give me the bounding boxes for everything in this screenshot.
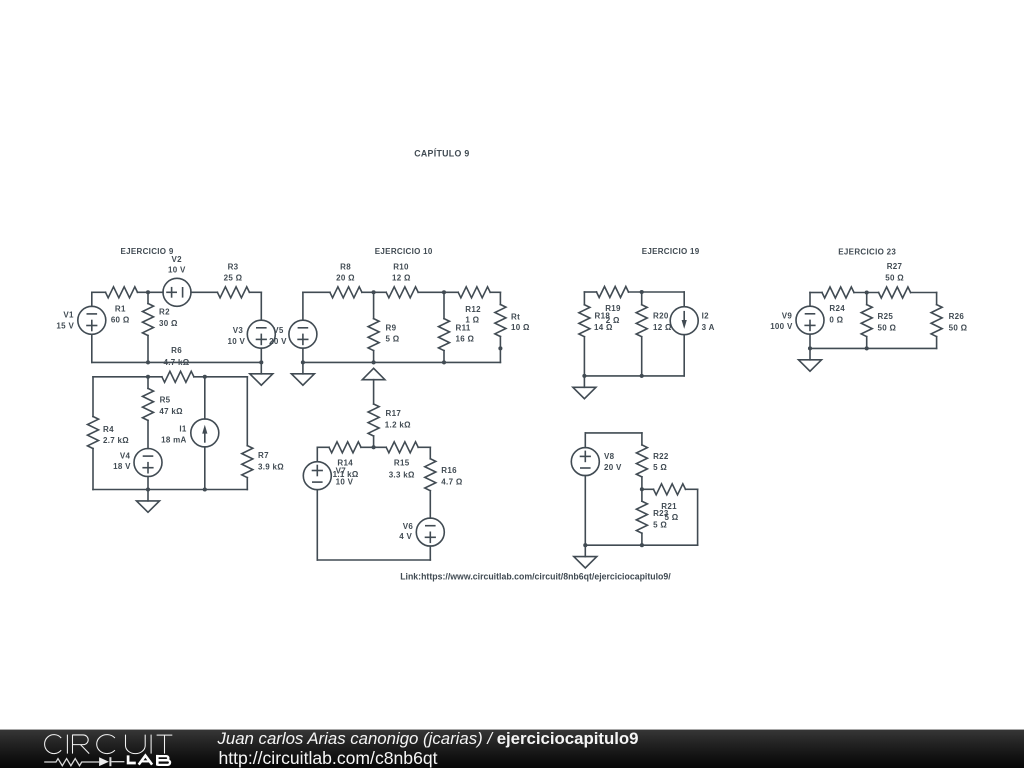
svg-text:V2: V2	[172, 255, 183, 264]
svg-text:R22: R22	[653, 452, 669, 461]
svg-text:47 kΩ: 47 kΩ	[159, 407, 183, 416]
svg-text:I2: I2	[702, 312, 710, 321]
svg-text:5 Ω: 5 Ω	[653, 463, 667, 472]
svg-text:18 V: 18 V	[113, 462, 131, 471]
svg-text:R16: R16	[441, 466, 457, 475]
svg-text:EJERCICIO 19: EJERCICIO 19	[642, 247, 700, 256]
svg-text:R2: R2	[159, 307, 170, 316]
svg-text:100 V: 100 V	[770, 322, 793, 331]
svg-text:V6: V6	[403, 522, 414, 531]
svg-text:R23: R23	[653, 509, 669, 518]
svg-text:R20: R20	[653, 312, 669, 321]
svg-text:10 V: 10 V	[336, 477, 354, 486]
svg-text:10 Ω: 10 Ω	[511, 323, 530, 332]
svg-text:10 V: 10 V	[227, 337, 245, 346]
svg-text:1.2 kΩ: 1.2 kΩ	[385, 421, 411, 430]
svg-text:30 Ω: 30 Ω	[159, 319, 178, 328]
svg-text:V4: V4	[120, 451, 131, 460]
svg-text:Link:https://www.circuitlab.co: Link:https://www.circuitlab.com/circuit/…	[400, 572, 671, 582]
svg-text:15 V: 15 V	[56, 321, 74, 330]
svg-text:3.3 kΩ: 3.3 kΩ	[389, 470, 415, 479]
svg-text:50 Ω: 50 Ω	[949, 323, 968, 332]
svg-text:12 Ω: 12 Ω	[653, 323, 672, 332]
svg-text:18 mA: 18 mA	[161, 436, 187, 445]
svg-text:16 Ω: 16 Ω	[456, 334, 475, 343]
svg-text:R25: R25	[878, 312, 894, 321]
svg-text:EJERCICIO 23: EJERCICIO 23	[838, 247, 896, 256]
svg-text:R26: R26	[949, 312, 965, 321]
svg-text:V3: V3	[233, 326, 244, 335]
svg-text:EJERCICIO 9: EJERCICIO 9	[121, 247, 174, 256]
svg-text:60 Ω: 60 Ω	[111, 315, 130, 324]
svg-text:R24: R24	[829, 304, 845, 313]
svg-text:R5: R5	[160, 396, 171, 405]
svg-text:3 A: 3 A	[702, 323, 715, 332]
svg-text:4.7 Ω: 4.7 Ω	[441, 477, 463, 486]
svg-text:Rt: Rt	[511, 312, 520, 321]
svg-text:4 V: 4 V	[399, 532, 412, 541]
svg-text:20 V: 20 V	[269, 337, 287, 346]
svg-text:R7: R7	[258, 451, 269, 460]
svg-text:5 Ω: 5 Ω	[653, 520, 667, 529]
svg-text:R4: R4	[103, 425, 114, 434]
svg-text:R17: R17	[386, 409, 402, 418]
svg-text:R12: R12	[465, 305, 481, 314]
svg-text:V8: V8	[604, 452, 615, 461]
svg-text:I1: I1	[179, 424, 187, 433]
svg-text:5 Ω: 5 Ω	[386, 334, 400, 343]
svg-text:R18: R18	[595, 312, 611, 321]
svg-text:50 Ω: 50 Ω	[878, 323, 897, 332]
svg-text:20 V: 20 V	[604, 463, 622, 472]
svg-text:R3: R3	[228, 262, 239, 271]
svg-text:CAPÍTULO 9: CAPÍTULO 9	[414, 148, 469, 158]
svg-text:20 Ω: 20 Ω	[336, 274, 355, 283]
svg-text:V1: V1	[63, 310, 74, 319]
svg-text:3.9 kΩ: 3.9 kΩ	[258, 463, 284, 472]
svg-text:V9: V9	[782, 311, 793, 320]
svg-text:50 Ω: 50 Ω	[885, 273, 904, 282]
svg-text:4.7 kΩ: 4.7 kΩ	[163, 358, 189, 367]
svg-text:0 Ω: 0 Ω	[829, 316, 843, 325]
svg-text:R8: R8	[340, 262, 351, 271]
svg-text:12 Ω: 12 Ω	[392, 274, 411, 283]
svg-text:R11: R11	[456, 323, 471, 332]
svg-text:R6: R6	[171, 346, 182, 355]
svg-text:R10: R10	[393, 262, 409, 271]
svg-text:R9: R9	[386, 323, 397, 332]
svg-text:R27: R27	[887, 262, 903, 271]
svg-text:25 Ω: 25 Ω	[224, 274, 243, 283]
svg-text:R1: R1	[115, 305, 126, 314]
svg-text:R15: R15	[394, 459, 410, 468]
svg-text:10 V: 10 V	[168, 266, 186, 275]
svg-text:V5: V5	[273, 326, 284, 335]
svg-text:2.7 kΩ: 2.7 kΩ	[103, 436, 129, 445]
svg-text:14 Ω: 14 Ω	[594, 323, 613, 332]
svg-text:EJERCICIO 10: EJERCICIO 10	[375, 247, 433, 256]
svg-text:V7: V7	[336, 466, 347, 475]
